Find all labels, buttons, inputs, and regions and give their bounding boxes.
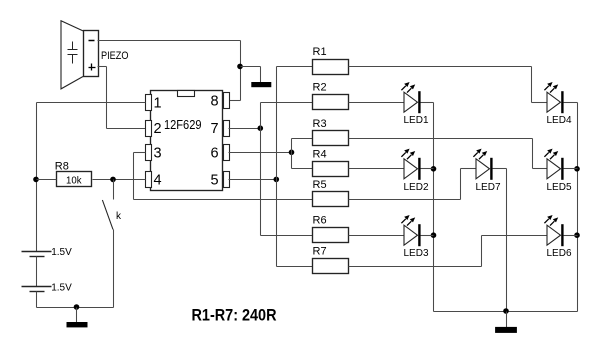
IC pin 3 stub bbox=[146, 145, 152, 161]
svg-text:1: 1 bbox=[154, 95, 162, 111]
node LED6 cathode junction bbox=[574, 232, 580, 238]
svg-text:LED2: LED2 bbox=[404, 182, 429, 193]
wire bottom rail (battery to switch) bbox=[37, 307, 114, 309]
LED LED2 bbox=[401, 149, 429, 193]
svg-text:1.5V: 1.5V bbox=[51, 283, 72, 294]
IC pin 2 stub bbox=[146, 121, 152, 137]
wire LED1 cathode to bus bbox=[421, 103, 434, 312]
svg-text:R8: R8 bbox=[55, 161, 69, 173]
svg-text:LED7: LED7 bbox=[476, 182, 501, 193]
svg-text:1.5V: 1.5V bbox=[51, 247, 72, 258]
ground (bottom left) bbox=[67, 308, 88, 328]
node pin5 junction bbox=[274, 177, 280, 183]
svg-text:PIEZO: PIEZO bbox=[101, 50, 129, 62]
resistor R6 bbox=[313, 215, 349, 243]
svg-text:12F629: 12F629 bbox=[164, 117, 202, 132]
svg-text:R1-R7: 240R: R1-R7: 240R bbox=[192, 306, 277, 325]
op-amp U1 PIC 12F629 body bbox=[151, 91, 223, 191]
svg-text:R6: R6 bbox=[313, 215, 327, 227]
svg-text:6: 6 bbox=[211, 145, 219, 161]
IC pin 8 stub bbox=[224, 93, 230, 109]
wire switch to bottom rail bbox=[113, 230, 115, 308]
wire pin7 bbox=[229, 128, 261, 130]
node R8/switch/pin4 junction bbox=[110, 177, 116, 183]
svg-text:7: 7 bbox=[211, 121, 219, 137]
svg-text:3: 3 bbox=[154, 145, 162, 161]
resistor R5 bbox=[313, 179, 349, 207]
IC pin 7 stub bbox=[224, 121, 230, 137]
ground (top middle) bbox=[251, 82, 271, 87]
resistor R8 bbox=[55, 161, 92, 187]
LED LED6 bbox=[544, 215, 572, 259]
svg-text:LED3: LED3 bbox=[404, 248, 429, 259]
LED LED7 bbox=[473, 149, 501, 193]
svg-text:LED1: LED1 bbox=[404, 115, 429, 126]
wire LED5 cathode bbox=[564, 168, 578, 170]
wire between cells bbox=[36, 257, 38, 287]
IC pin 5 stub bbox=[224, 172, 230, 188]
svg-text:R2: R2 bbox=[313, 82, 327, 94]
wire pin5 bbox=[229, 179, 277, 181]
node LED3 cathode junction bbox=[431, 232, 437, 238]
wire R7 to LED6 bbox=[349, 236, 548, 267]
svg-text:R3: R3 bbox=[313, 118, 327, 130]
IC pin 6 stub bbox=[224, 145, 230, 161]
svg-text:R5: R5 bbox=[313, 179, 327, 191]
LED LED5 bbox=[544, 149, 572, 193]
svg-text:LED4: LED4 bbox=[547, 115, 572, 126]
svg-text:R4: R4 bbox=[313, 148, 327, 160]
resistor R4 bbox=[313, 148, 349, 176]
resistor R2 bbox=[313, 82, 349, 110]
svg-text:4: 4 bbox=[154, 172, 162, 188]
svg-text:10k: 10k bbox=[66, 175, 82, 187]
svg-text:LED6: LED6 bbox=[547, 248, 572, 259]
piezo buzzer LS1 bbox=[61, 21, 129, 89]
wire LED3 cathode bbox=[421, 235, 434, 237]
wire R3 to LED5 bbox=[349, 139, 548, 169]
wire pin7 bus to R2 and R6 bbox=[261, 103, 313, 236]
wire pin1 to battery positive rail bbox=[37, 103, 146, 252]
wire bottom bus bbox=[434, 311, 578, 313]
node pin7 junction bbox=[258, 125, 264, 131]
wire LED6 cathode bbox=[564, 235, 578, 237]
node R8/battery rail junction bbox=[33, 177, 39, 183]
svg-text:2: 2 bbox=[154, 121, 162, 137]
switch k bbox=[102, 180, 122, 230]
wire LED2 cathode bbox=[421, 168, 434, 170]
resistor R7 bbox=[313, 246, 349, 274]
battery cell 2 (1.5V) bbox=[22, 283, 73, 294]
wire pin6 bbox=[229, 152, 292, 154]
LED LED1 bbox=[401, 82, 429, 126]
wire LED7 cathode to bottom bbox=[493, 169, 507, 312]
svg-text:R1: R1 bbox=[313, 46, 327, 58]
wire piezo minus to pin8/ground bbox=[98, 41, 241, 101]
node bottom ground junction bbox=[503, 308, 509, 314]
IC pin 1 stub bbox=[146, 95, 152, 111]
LED LED3 bbox=[401, 215, 429, 259]
wire R2 to LED1 bbox=[349, 102, 405, 104]
wire piezo plus to pin2 bbox=[98, 67, 146, 129]
wire R8 to pin4 bbox=[93, 179, 146, 181]
wire junction to ground bbox=[241, 67, 261, 83]
svg-text:5: 5 bbox=[211, 172, 219, 188]
node LED5 cathode junction bbox=[574, 166, 580, 172]
svg-text:R7: R7 bbox=[313, 246, 327, 258]
wire rail to R8 bbox=[37, 179, 57, 181]
wire R1 to LED4 bbox=[349, 67, 548, 103]
wire pin3 to R5 bbox=[134, 153, 313, 200]
ground (bottom right) bbox=[495, 312, 517, 333]
wire R6 to LED3 bbox=[349, 235, 405, 237]
wire battery to bottom rail bbox=[36, 292, 38, 308]
svg-text:8: 8 bbox=[211, 93, 219, 109]
svg-text:LED5: LED5 bbox=[547, 182, 572, 193]
node LED2 cathode junction bbox=[431, 166, 437, 172]
node ground junction bottom-left bbox=[74, 304, 80, 310]
wire R4 to LED2 bbox=[349, 168, 405, 170]
node junction piezo/ground bbox=[237, 64, 243, 70]
resistor R1 bbox=[313, 46, 349, 74]
LED LED4 bbox=[544, 82, 572, 126]
resistor R3 bbox=[313, 118, 349, 146]
node pin6 junction bbox=[289, 150, 295, 156]
battery cell 1 (1.5V) bbox=[22, 247, 73, 258]
wire pin6 bus to R3 and R4 bbox=[292, 139, 313, 169]
wire LED4 cathode to right bus bbox=[564, 103, 578, 312]
wire R5 to LED7 bbox=[349, 169, 477, 200]
wire pin5 bus to R1 and R7 bbox=[277, 67, 313, 267]
IC pin 4 stub bbox=[146, 172, 152, 188]
